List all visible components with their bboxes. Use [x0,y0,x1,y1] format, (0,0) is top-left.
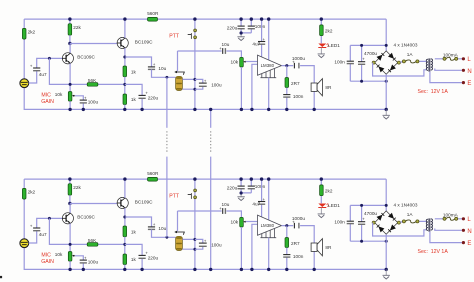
svg-text:1k: 1k [131,69,137,74]
svg-text:22k: 22k [73,185,81,190]
wire bridge bottom to ground bus [385,234,387,269]
node output [285,64,288,67]
terminal E [462,81,465,84]
resistor 560R [148,17,158,21]
fuse 100mA [435,58,462,60]
transistor Q2 BC109C [117,197,128,208]
node ground terminal [385,108,388,111]
node line B top [209,108,212,111]
junction dots ground bus [68,268,71,271]
wire pot bottom to ground [69,261,71,269]
capacitor 100n (zobel) [286,88,288,110]
wire left bus upper [23,19,25,79]
resistor 560R [148,177,158,181]
svg-text:56K: 56K [88,78,97,83]
capacitor 100n (supply) [248,185,255,187]
resistor 2k2 (left) [22,188,26,199]
op-amp U1 LM380 [258,55,282,75]
wire preamp out to 10u [125,217,152,227]
capacitor 100n (supply) [248,25,255,27]
wire pot terminals to PTT line [182,79,195,89]
wire bridge bottom to ground bus [385,74,387,109]
capacitor 4u7 (bypass) [261,179,263,217]
potentiometer 10k MIC GAIN [68,252,72,262]
wire N [435,69,462,71]
wire pot terminals to PTT line [182,239,195,249]
wire wiper to amp [246,221,258,223]
transformer T1 [428,218,430,231]
op-amp U1 LM380 [258,215,282,235]
node Q1 collector [68,42,71,45]
wire V+ drop [385,179,387,211]
node emitter/56K [69,243,72,246]
wire 220u branch [125,244,142,269]
wire wiper feed from top [177,211,179,231]
svg-text:100u: 100u [88,99,99,104]
svg-text:100u: 100u [88,259,99,264]
svg-text:220u: 220u [148,255,159,260]
svg-text:1A: 1A [407,52,414,57]
node emitter/56K [69,83,72,86]
wire Q1 emitter to MIC GAIN pot [69,223,71,251]
resistor 2R7 [286,66,288,78]
svg-text:2k2: 2k2 [28,189,36,194]
resistor 56K [87,83,98,87]
svg-text:10u: 10u [222,202,230,207]
resistor 22k [69,179,71,184]
node line A tap [166,236,169,239]
junction dots top bus [68,17,71,20]
svg-text:MIC: MIC [41,252,51,258]
wire pot to ground [240,67,242,109]
svg-text:100n: 100n [255,184,266,189]
capacitor 220u (emitter) [139,94,146,96]
capacitor 100n (psu) [349,45,351,81]
svg-text:GAIN: GAIN [41,99,54,105]
capacitor 10u (inline) [222,48,224,54]
terminal L [462,217,465,220]
svg-text:PTT: PTT [169,33,180,39]
wire PTT line [194,19,196,109]
microphone MIC1 [20,79,29,88]
svg-text:BC109C: BC109C [135,200,153,205]
wire V+ drop [385,19,387,51]
svg-text:2k2: 2k2 [325,189,333,194]
capacitor 4u7 [33,227,40,229]
node line A tap [166,76,169,79]
wire 220u branch [125,84,142,109]
wire V+ to amp [268,179,270,220]
svg-text:10k: 10k [55,92,63,97]
capacitor 100n (zobel) [286,248,288,270]
svg-text:10k: 10k [231,59,239,64]
fuse 100mA [435,218,462,220]
wire amp - input to ground [252,224,258,269]
wire pot bottom to ground [69,101,71,109]
wire wiper to 100u [75,256,83,270]
wire Q2 emitter chain [124,48,126,66]
svg-text:100n: 100n [334,219,345,224]
wire V+ to amp [268,19,270,60]
svg-text:10u: 10u [158,226,166,231]
wire output [282,226,315,243]
svg-text:LM380: LM380 [261,223,275,228]
capacitor 1000u [293,223,295,229]
svg-text:1k: 1k [131,229,137,234]
transistor Q1 BC109C [62,213,73,224]
wire wiper feed from top [177,51,179,71]
svg-text:100u: 100u [211,83,222,88]
svg-text:220u: 220u [227,26,238,31]
wire 10u to line/wiper [152,229,176,237]
ground (psu) [385,269,387,275]
wire mic to 4u7 [29,218,63,243]
junction dots top bus [68,177,71,180]
node 220u junction [240,31,243,34]
node Q1 collector [68,202,71,205]
svg-text:560R: 560R [147,171,159,176]
bridge rectifier 4 x 1N4003 [375,51,398,74]
wire Q2 emitter chain [124,208,126,226]
potentiometer 10k volume [240,217,244,227]
wire smoothing rail top [350,204,386,206]
wire AC return [373,223,427,236]
node emitter top [123,56,126,59]
svg-text:4u7: 4u7 [252,41,260,46]
resistor 56K [87,243,98,247]
svg-text:22k: 22k [73,25,81,30]
capacitor 100n (psu) [349,205,351,241]
svg-text:Sec: 12V 1A: Sec: 12V 1A [418,249,449,255]
resistor 2R7 [286,226,288,238]
node ground terminal [385,268,388,271]
svg-text:100n: 100n [334,59,345,64]
capacitor 10u (inline) [222,208,224,214]
svg-text:10k: 10k [55,252,63,257]
LED LED1 [318,204,326,208]
svg-text:2k2: 2k2 [28,29,36,34]
wire feedback down [49,58,124,84]
wire wiper to amp [246,61,258,63]
junction dots ground bus [68,108,71,111]
wire amp ground pins [268,78,270,110]
svg-text:560R: 560R [147,11,159,16]
svg-text:56K: 56K [88,238,97,243]
svg-text:4u7: 4u7 [39,232,47,237]
svg-text:1k: 1k [131,257,137,262]
svg-text:100mA: 100mA [443,53,459,58]
node base/4u7 [48,57,51,60]
border tick bottom-left [0,276,2,278]
capacitor 10u (preamp out) [148,226,155,228]
wire Q1 collector [69,44,71,54]
wire y51 line [178,51,242,57]
capacitor 4700u [361,205,363,241]
transistor Q2 BC109C [117,37,128,48]
svg-text:1k: 1k [131,97,137,102]
switch PTT [194,189,197,192]
svg-text:LED1: LED1 [328,43,340,48]
node PTT top [193,177,196,180]
node PTT top [193,17,196,20]
potentiometer 10k MIC GAIN [68,92,72,102]
capacitor 220u (emitter) [139,254,146,256]
ground (decoupling) [240,33,242,37]
resistor 22k [69,19,71,24]
capacitor 100u (mic gain) [80,259,87,261]
svg-text:LM380: LM380 [261,63,275,68]
wire line A (audio interconnect) [166,77,168,128]
capacitor 100u (mic gain) [80,99,87,101]
svg-text:8R: 8R [325,85,332,90]
resistor 2k2 (LED) [320,179,322,203]
capacitor 1000u [293,63,295,69]
wire left bus upper [23,179,25,239]
svg-text:220u: 220u [227,186,238,191]
svg-text:BC109C: BC109C [77,215,95,220]
wire V+ top bus [24,178,386,180]
node between 1k [123,83,126,86]
node 220u junction [240,191,243,194]
wire preamp out to 10u [125,57,152,67]
wire smoothing rail bottom [350,80,386,82]
svg-text:E: E [467,241,471,247]
transformer T1 [428,58,430,71]
capacitor 220u (supply) [241,19,251,33]
wire AC return [373,63,427,76]
wire PTT line [194,179,196,269]
capacitor 4u7 (bypass) [261,19,263,57]
svg-text:BC109C: BC109C [135,40,153,45]
capacitor 4700u [361,45,363,81]
resistor 1k (lower) [123,94,127,105]
wire pot to ground [240,227,242,269]
svg-text:100u: 100u [211,243,222,248]
wire amp ground pins [268,238,270,270]
svg-text:10k: 10k [231,219,239,224]
transistor Q1 BC109C [62,53,73,64]
svg-text:100n: 100n [293,254,304,259]
wire E [430,232,462,243]
fuse 1A [400,61,426,62]
wire feedback down [49,218,124,244]
wire Q2 collector [124,19,126,38]
wire smoothing rail bottom [350,240,386,242]
wire output [282,66,315,83]
wire V+ top bus [24,18,386,20]
node line B bottom [209,268,212,271]
node base/4u7 [48,217,51,220]
resistor 1k (upper) [123,66,127,77]
svg-text:Sec: 12V 1A: Sec: 12V 1A [418,89,449,95]
svg-text:100n: 100n [255,24,266,29]
svg-text:N: N [467,229,471,235]
wire E [430,72,462,83]
svg-text:100mA: 100mA [443,213,459,218]
wire left bus lower + ground bus [24,247,386,269]
capacitor 100u (line) [195,79,203,89]
speaker LS1 8R [313,91,315,109]
wire amp - input to ground [252,64,258,109]
wire wiper to 100u [75,96,83,110]
svg-text:MIC: MIC [41,92,51,98]
svg-text:4 x 1N4003: 4 x 1N4003 [394,42,418,47]
terminal E [462,241,465,244]
switch PTT [194,29,197,32]
capacitor 10u (preamp out) [148,66,155,68]
wire Q1 collector [69,204,71,214]
svg-text:4700u: 4700u [364,211,377,216]
svg-text:8R: 8R [325,245,332,250]
LED LED1 [318,44,326,48]
microphone MIC1 [20,239,29,248]
resistor 2k2 (LED) [320,19,322,43]
fuse 1A [400,221,426,222]
wire left bus lower + ground bus [24,87,386,109]
terminal N [462,229,465,232]
svg-text:10u: 10u [222,42,230,47]
ground (psu) [385,109,387,115]
resistor 1k (lower) [123,254,127,265]
svg-text:LED1: LED1 [328,203,340,208]
svg-text:N: N [467,69,471,75]
svg-text:PTT: PTT [169,193,180,199]
svg-text:1A: 1A [407,212,414,217]
potentiometer 10k volume [240,57,244,67]
node output [285,224,288,227]
wire Q1 emitter to MIC GAIN pot [69,63,71,91]
wire N [435,229,462,231]
node between 1k [123,243,126,246]
svg-text:2R7: 2R7 [291,81,300,86]
wire mic to 4u7 [29,58,63,83]
svg-text:2k2: 2k2 [325,29,333,34]
svg-text:BC109C: BC109C [77,55,95,60]
ground (decoupling) [240,193,242,197]
ground (LED) [320,47,322,54]
potentiometer volume (cylinder) [176,76,183,90]
potentiometer volume (cylinder) [176,236,183,250]
svg-text:4700u: 4700u [364,51,377,56]
svg-text:4u7: 4u7 [252,201,260,206]
resistor 1k (upper) [123,226,127,237]
svg-text:2R7: 2R7 [291,241,300,246]
capacitor 100u (line) [195,239,203,249]
wire Q2 base [70,43,117,45]
bridge rectifier 4 x 1N4003 [375,211,398,234]
svg-text:220u: 220u [148,95,159,100]
svg-text:10u: 10u [158,66,166,71]
wire y51 line [178,211,242,217]
svg-text:100n: 100n [293,94,304,99]
terminal L [462,57,465,60]
svg-text:4 x 1N4003: 4 x 1N4003 [394,202,418,207]
capacitor 4u7 [33,67,40,69]
svg-text:GAIN: GAIN [41,259,54,265]
wire Q2 base [70,203,117,205]
terminal N [462,69,465,72]
svg-text:4u7: 4u7 [39,72,47,77]
speaker LS1 8R [313,251,315,269]
wire Q2 collector [124,179,126,198]
capacitor 220u (supply) [241,179,251,193]
node emitter top [123,216,126,219]
resistor 2k2 (left) [22,28,26,39]
wire smoothing rail top [350,44,386,46]
ground (LED) [320,207,322,214]
wire 10u to line/wiper [152,69,176,77]
svg-text:E: E [467,81,471,87]
wire line B (ground interconnect) [210,109,212,127]
